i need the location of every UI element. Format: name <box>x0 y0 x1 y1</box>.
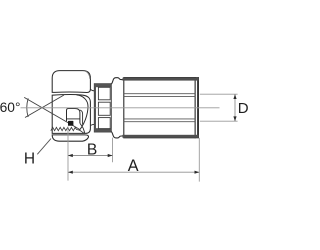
dimension D extension bottom <box>200 120 238 122</box>
thread zigzag <box>51 127 85 133</box>
nut chamfer arc <box>77 95 89 130</box>
seat thread minor line <box>80 110 83 125</box>
collar segment box 1 <box>98 87 110 100</box>
socket end cap <box>195 78 198 138</box>
dimension D extension top <box>200 93 238 95</box>
transition hump bottom <box>111 132 123 138</box>
seat internal line <box>67 118 80 120</box>
dimension A left arrow <box>68 171 73 174</box>
transition hump top <box>111 78 123 84</box>
hose bore line bottom outer <box>124 121 195 123</box>
hex nut bottom facet <box>52 135 88 141</box>
neck top line <box>90 89 94 91</box>
dimension B left arrow <box>68 154 73 157</box>
extension line socket start <box>112 138 114 163</box>
seat point black square <box>68 121 73 126</box>
seat counterbore box <box>67 109 80 124</box>
dimension D top arrow <box>233 94 236 99</box>
hose bore line top inner <box>124 96 195 98</box>
collar outer <box>94 84 111 132</box>
collar bottom shading band <box>94 128 111 131</box>
svg-text:60°: 60° <box>0 100 20 115</box>
svg-text:D: D <box>238 100 249 117</box>
60 degree angle arc <box>27 98 28 117</box>
dimension B line <box>68 155 113 157</box>
collar top shading band <box>94 84 111 88</box>
H leader line <box>37 139 51 155</box>
svg-text:A: A <box>128 157 139 175</box>
hose bore line top outer <box>124 93 195 95</box>
socket body <box>124 78 195 138</box>
hex nut top facet <box>52 71 90 93</box>
svg-text:H: H <box>24 151 35 168</box>
extension line seat <box>67 127 69 181</box>
cone flank line lower <box>24 97 80 129</box>
hex nut middle facet <box>52 95 90 134</box>
socket end edge thick <box>197 78 199 137</box>
socket bottom shading band <box>123 135 199 138</box>
seat bottom curve <box>80 123 85 133</box>
centerline <box>21 107 220 109</box>
collar segment box 3 <box>98 118 110 129</box>
dimension B right arrow <box>108 154 113 157</box>
socket top shading band <box>123 78 199 81</box>
neck bottom line <box>90 124 94 125</box>
svg-text:B: B <box>87 142 97 159</box>
dimension A right arrow <box>195 171 200 174</box>
dimension D bottom arrow <box>233 116 236 121</box>
nut corner chamfer line <box>86 71 90 79</box>
dimension A line <box>68 171 199 173</box>
collar left shading strip <box>94 84 96 132</box>
hose bore line bottom inner <box>124 118 195 120</box>
extension line socket end <box>198 138 200 182</box>
dimension D line <box>234 94 236 121</box>
cone flank line upper <box>25 95 64 118</box>
collar segment box 2 <box>98 102 110 115</box>
